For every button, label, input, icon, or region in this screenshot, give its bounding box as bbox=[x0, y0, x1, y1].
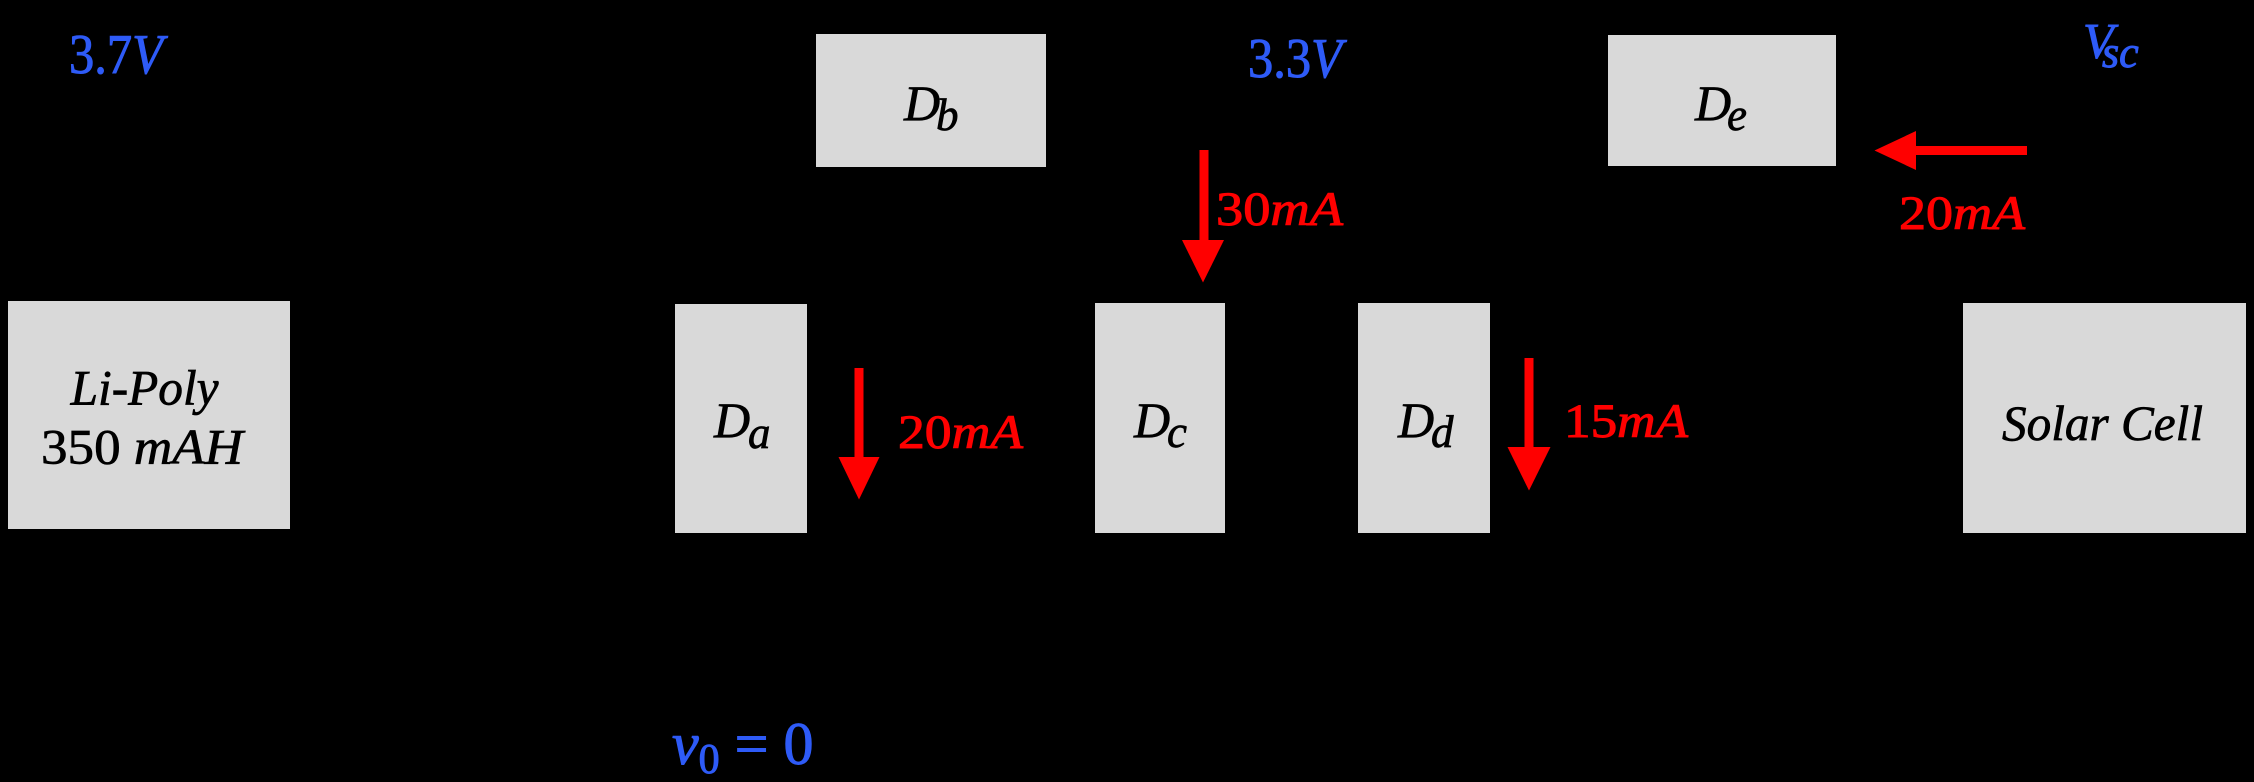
svg-text:Solar Cell: Solar Cell bbox=[2002, 395, 2203, 451]
svg-text:3.7V: 3.7V bbox=[69, 24, 168, 86]
svg-text:D: D bbox=[1694, 75, 1731, 131]
svg-text:350 mAH: 350 mAH bbox=[41, 419, 246, 475]
diode Da box bbox=[675, 304, 807, 533]
svg-text:15mA: 15mA bbox=[1564, 395, 1689, 448]
diode Dd label bbox=[1397, 392, 1454, 457]
svg-text:e: e bbox=[1727, 90, 1747, 140]
current arrow 15mA (down from Dd) bbox=[1508, 358, 1551, 491]
battery Li-Poly label bbox=[41, 360, 246, 475]
node Vsc label bbox=[2083, 13, 2139, 78]
svg-text:D: D bbox=[1133, 392, 1170, 448]
svg-text:3.3V: 3.3V bbox=[1248, 28, 1347, 90]
battery Li-Poly box bbox=[8, 301, 290, 529]
diode De label bbox=[1694, 75, 1747, 140]
diode Da label bbox=[713, 392, 771, 458]
diode Db box bbox=[816, 34, 1046, 167]
diode Dc label bbox=[1133, 392, 1187, 457]
svg-text:D: D bbox=[1397, 392, 1434, 448]
svg-text:sc: sc bbox=[2102, 28, 2139, 77]
current arrow into De (20mA, leftward) bbox=[1875, 131, 2028, 170]
svg-text:20mA: 20mA bbox=[1899, 187, 2026, 240]
svg-text:b: b bbox=[936, 90, 959, 140]
diode Dd box bbox=[1358, 303, 1490, 533]
svg-text:Li-Poly: Li-Poly bbox=[70, 360, 220, 416]
source Solar Cell box bbox=[1963, 303, 2246, 533]
diode Dc box bbox=[1095, 303, 1225, 533]
svg-text:c: c bbox=[1167, 407, 1187, 457]
svg-text:20mA: 20mA bbox=[898, 406, 1024, 459]
diode Db label bbox=[903, 75, 959, 140]
svg-text:D: D bbox=[713, 392, 750, 448]
svg-text:D: D bbox=[903, 75, 940, 131]
svg-text:30mA: 30mA bbox=[1216, 183, 1344, 236]
svg-text:v0 = 0: v0 = 0 bbox=[672, 711, 813, 782]
current arrow 30mA (down into Dc) bbox=[1182, 150, 1224, 283]
diode De box bbox=[1608, 35, 1836, 166]
current arrow 20mA (down, load branch) bbox=[839, 368, 880, 500]
svg-text:a: a bbox=[748, 408, 771, 458]
svg-text:d: d bbox=[1431, 407, 1454, 457]
